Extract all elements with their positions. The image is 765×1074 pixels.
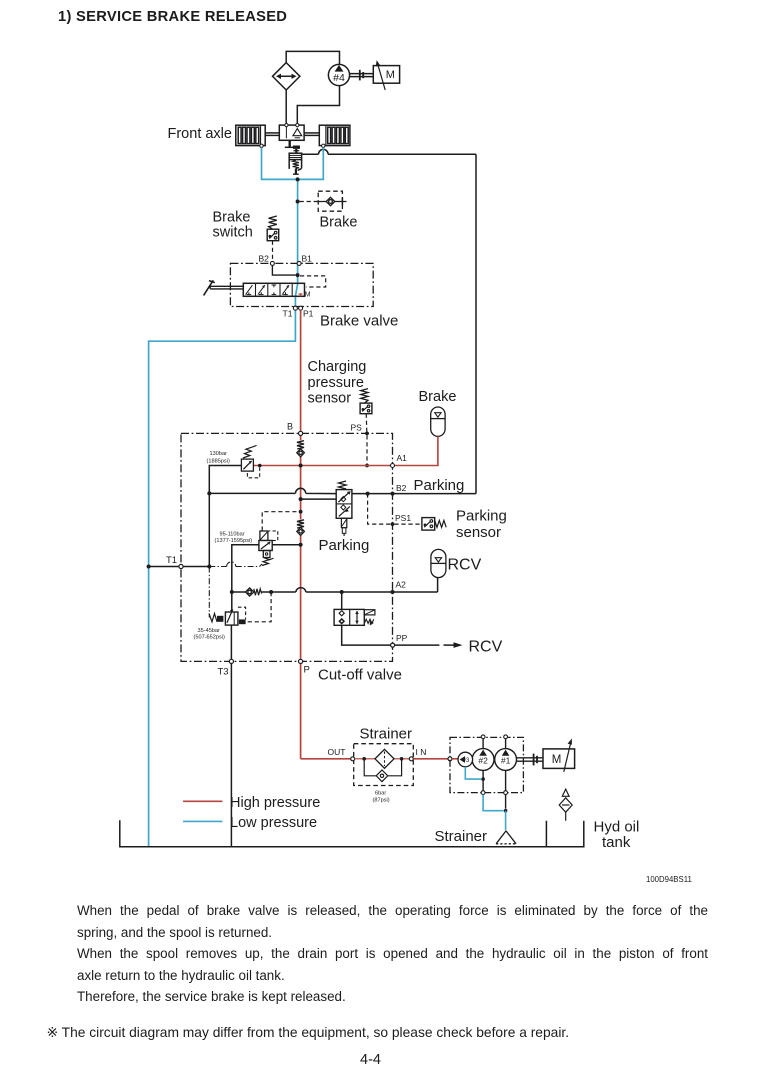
node parking feed junction on red xyxy=(299,497,303,501)
reducing valve 95-110bar xyxy=(259,531,278,566)
wire T1 to low pressure rail xyxy=(149,566,179,568)
relief valve 35-45bar xyxy=(209,607,246,625)
wire 35-45 valve to T3 xyxy=(230,625,232,659)
wire parking valve to right rail xyxy=(352,493,476,495)
node suction junction 1 xyxy=(481,777,485,781)
svg-text:#1: #1 xyxy=(501,756,511,766)
solenoid valve (cut-off) xyxy=(334,609,375,625)
wire port to pump 3 xyxy=(452,758,459,760)
front axle brake piston right xyxy=(319,125,350,145)
wire cooler to front axle port xyxy=(285,90,287,124)
wire pump outlet to cooler top xyxy=(286,51,339,64)
wire pump 1 suction xyxy=(505,771,507,791)
svg-text:RCV: RCV xyxy=(469,638,503,655)
svg-text:I N: I N xyxy=(416,747,427,757)
node pilot tap on red xyxy=(299,510,303,514)
port pump suction xyxy=(448,757,452,761)
body text xyxy=(77,903,708,918)
wire high pressure P1 to strainer OUT xyxy=(301,310,351,759)
port T3 xyxy=(229,659,233,663)
port pump group bottom right xyxy=(504,791,508,795)
svg-text:Cut-off valve: Cut-off valve xyxy=(318,667,402,684)
port A1 xyxy=(391,464,395,468)
wire PS to A1 line (dashed) xyxy=(366,435,368,463)
wire 95-110 valve right to red xyxy=(272,544,300,546)
svg-text:pressure: pressure xyxy=(308,375,364,391)
title xyxy=(58,9,287,25)
parking valve xyxy=(336,481,352,536)
motor M (top) xyxy=(373,60,399,90)
legend low pressure xyxy=(183,820,222,822)
svg-text:sensor: sensor xyxy=(308,391,352,407)
wire high pressure IN to pump group xyxy=(413,758,448,760)
node junction axle low pressure xyxy=(296,177,300,181)
brake switch xyxy=(267,216,279,262)
svg-text:#4: #4 xyxy=(333,72,345,84)
port B2 xyxy=(270,261,274,265)
wire red junction to parking valve xyxy=(301,498,337,500)
shaft left pack to axle block xyxy=(265,133,279,136)
svg-text:(87psi): (87psi) xyxy=(373,797,390,803)
node 95-110 tap on red xyxy=(299,543,303,547)
check valve below B xyxy=(297,441,305,457)
legend high pressure xyxy=(183,800,222,802)
svg-text:B1: B1 xyxy=(302,254,313,264)
wire brake switch pilot (dashed) xyxy=(272,241,274,262)
svg-text:A2: A2 xyxy=(396,580,407,590)
filter element xyxy=(375,749,394,768)
wire OUT to IN through filter xyxy=(355,758,410,760)
svg-text:Parking: Parking xyxy=(414,477,465,494)
svg-text:M: M xyxy=(552,754,562,766)
svg-text:tank: tank xyxy=(602,834,631,851)
svg-text:T3: T3 xyxy=(218,667,229,678)
svg-text:#3: #3 xyxy=(463,758,470,764)
node solenoid valve tap xyxy=(340,590,344,594)
charging pressure sensor xyxy=(360,389,372,432)
svg-text:B: B xyxy=(287,422,293,432)
node A2 junction left xyxy=(230,590,234,594)
relief valve 130bar xyxy=(241,445,259,477)
suction strainer xyxy=(496,831,516,844)
accumulator Brake xyxy=(431,407,445,436)
port PS1 xyxy=(391,522,395,526)
wire pump 2 suction xyxy=(482,771,484,791)
wire high pressure accumulator to A1 xyxy=(395,436,438,465)
node T1 on low pressure rail xyxy=(147,565,151,569)
svg-text:Strainer: Strainer xyxy=(360,725,413,742)
parking sensor xyxy=(422,518,446,531)
pilot line to PS1 (dashed) xyxy=(368,494,391,524)
tank breather xyxy=(559,789,572,821)
tank return line xyxy=(120,820,547,847)
svg-text:Parking: Parking xyxy=(456,508,507,525)
svg-text:switch: switch xyxy=(213,225,253,241)
bypass check valve xyxy=(364,759,401,782)
node suction junction 2 xyxy=(504,809,508,813)
shaft pump #4 to motor xyxy=(350,70,374,81)
port A2 xyxy=(391,590,395,594)
brake valve enclosure xyxy=(230,263,373,306)
wire A2 line (hop over red) xyxy=(296,588,438,592)
pilot A2 to 35-45 valve (dashed) xyxy=(247,592,272,622)
svg-text:Low pressure: Low pressure xyxy=(230,815,317,831)
node A2 pilot tap xyxy=(269,590,273,594)
svg-text:(507-652psi): (507-652psi) xyxy=(194,635,226,641)
brake check valve xyxy=(318,197,346,205)
svg-text:#2: #2 xyxy=(478,756,488,766)
pump #2 xyxy=(472,749,494,771)
port PP xyxy=(391,643,395,647)
svg-text:sensor: sensor xyxy=(456,524,501,541)
port B xyxy=(299,431,303,435)
arrow to RCV xyxy=(444,642,463,648)
wire right rail down xyxy=(475,154,477,493)
wire low pressure left pack to right pack xyxy=(262,148,324,180)
brake valve V1 xyxy=(243,283,310,298)
strainer enclosure xyxy=(354,744,414,786)
svg-text:Hyd oil: Hyd oil xyxy=(594,819,640,836)
node bypass right xyxy=(400,757,404,761)
node relief pilot tap xyxy=(258,464,262,468)
wire PS1 to parking sensor (dashed) xyxy=(394,523,422,525)
wire low pressure T1 to tank rail xyxy=(149,310,296,847)
svg-text:Brake: Brake xyxy=(213,210,251,226)
svg-text:Brake: Brake xyxy=(419,389,457,405)
svg-text:High pressure: High pressure xyxy=(230,795,320,811)
wire low pressure down to brake valve B1 xyxy=(297,179,299,275)
svg-text:35-45bar: 35-45bar xyxy=(198,628,221,634)
port OUT xyxy=(351,757,355,761)
svg-text:PP: PP xyxy=(396,633,408,643)
svg-text:T1: T1 xyxy=(283,309,293,319)
node rail junction xyxy=(207,491,211,495)
node bypass left xyxy=(362,757,366,761)
shaft axle block to right pack xyxy=(304,133,319,136)
front axle valve block xyxy=(279,124,304,141)
node PS xyxy=(365,432,369,436)
port P xyxy=(299,659,303,663)
node pilot tap junction xyxy=(366,492,370,496)
wire T3 to tank line xyxy=(230,664,232,847)
pedal lever xyxy=(204,280,244,295)
node PS on A1 line xyxy=(365,464,369,468)
wire low pressure through brake valve xyxy=(295,275,297,306)
port pump 2 top xyxy=(482,739,484,749)
port pump group bottom left xyxy=(481,791,485,795)
port B2 (cut-off) xyxy=(391,492,395,496)
svg-text:OUT: OUT xyxy=(328,747,346,757)
wire rail to parking valve (hop over red) xyxy=(209,488,336,493)
wire A2 to RCV accumulator xyxy=(437,578,439,592)
svg-text:Charging: Charging xyxy=(308,359,367,375)
check valve with spring (A2 line) xyxy=(232,588,296,596)
wire B2 to valve xyxy=(272,265,295,275)
svg-text:M: M xyxy=(305,292,311,299)
svg-text:M: M xyxy=(386,69,395,81)
wire tap to solenoid valve xyxy=(341,592,343,609)
svg-text:P1: P1 xyxy=(303,309,314,319)
svg-text:PS: PS xyxy=(351,423,363,433)
port T1 (cut-off) xyxy=(179,564,183,568)
node B1 feed junction xyxy=(296,273,300,277)
accumulator RCV xyxy=(431,549,446,577)
svg-text:PS1: PS1 xyxy=(395,513,411,523)
port right pack xyxy=(322,144,325,147)
wire 95-110 valve left xyxy=(232,545,259,611)
pump #3 xyxy=(458,752,473,767)
svg-text:6bar: 6bar xyxy=(375,790,386,796)
wire pump #4 drain to front axle port xyxy=(297,86,339,124)
svg-text:100D94BS11: 100D94BS11 xyxy=(646,875,692,884)
svg-text:(1377-1595psi): (1377-1595psi) xyxy=(215,538,253,544)
wire high pressure A1 line xyxy=(253,465,390,467)
pump #1 xyxy=(495,749,517,771)
node A1 junction on red xyxy=(299,464,303,468)
port pump 1 top xyxy=(505,739,507,749)
svg-text:B2: B2 xyxy=(396,483,407,493)
svg-text:RCV: RCV xyxy=(448,556,482,573)
wire relief to left rail xyxy=(209,466,241,567)
svg-text:Brake: Brake xyxy=(320,215,358,231)
svg-text:Brake valve: Brake valve xyxy=(320,313,398,330)
port IN xyxy=(409,757,413,761)
shaft pump to motor xyxy=(517,754,544,766)
wire suction below box (low pressure) xyxy=(483,795,503,811)
wire to suction strainer (low pressure) xyxy=(505,811,507,831)
wire axle relief to right rail (hop over cyan) xyxy=(302,149,476,154)
pilot 95-110bar valve (dashed) xyxy=(262,512,298,531)
hyd oil tank xyxy=(546,821,583,847)
svg-text:Parking: Parking xyxy=(319,537,370,554)
wire PP out xyxy=(395,644,440,646)
svg-text:130bar: 130bar xyxy=(210,451,228,457)
svg-text:A1: A1 xyxy=(397,453,408,463)
brake check valve enclosure xyxy=(318,191,342,211)
high pressure tick in valve xyxy=(299,294,303,296)
cooler xyxy=(273,63,300,90)
wire sensor pilot (dashed) xyxy=(365,414,368,432)
pump group enclosure xyxy=(450,737,523,792)
svg-text:P: P xyxy=(304,665,310,676)
svg-text:B2: B2 xyxy=(259,254,270,264)
node T1 inner junction xyxy=(207,565,211,569)
node junction brake check valve tap xyxy=(296,200,300,204)
svg-text:(1885psi): (1885psi) xyxy=(207,459,230,465)
port P1 xyxy=(299,306,303,310)
port left pack xyxy=(260,144,263,147)
pilot line at brake valve right (dashed) xyxy=(300,276,326,287)
svg-text:95-110bar: 95-110bar xyxy=(220,531,245,537)
port T1 xyxy=(293,306,297,310)
drain line T1 to 95-110 spring (dash-dot, hop) xyxy=(209,562,262,567)
check valve on red (lower) xyxy=(297,520,305,536)
svg-text:Strainer: Strainer xyxy=(435,828,488,845)
wire solenoid valve to PP xyxy=(342,625,391,645)
cut-off valve enclosure xyxy=(181,433,393,661)
port B1 xyxy=(297,261,301,265)
svg-text:T1: T1 xyxy=(166,555,177,566)
drain line T1 to 35-45 spring (dash-dot) xyxy=(208,567,210,618)
svg-text:Front axle: Front axle xyxy=(168,126,232,142)
pump #4 xyxy=(328,64,349,85)
brake check valve dashed lead xyxy=(300,201,319,203)
wire pump 3 suction (low pressure) xyxy=(465,767,481,779)
motor M (bottom) xyxy=(543,739,575,772)
front axle brake piston left xyxy=(236,125,265,145)
axle relief valve xyxy=(285,140,302,174)
